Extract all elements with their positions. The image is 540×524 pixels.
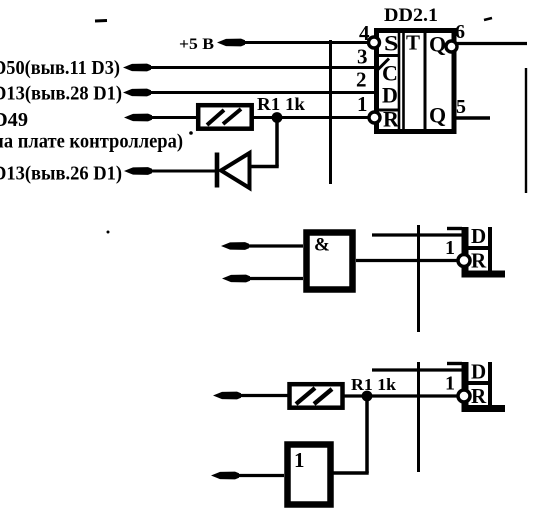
- wire diode anode horizontal: [250, 165, 279, 169]
- wire node down to diode: [275, 118, 279, 167]
- wire S input (pin 4) with arrow: [217, 39, 245, 47]
- wire diode cathode with arrow: [124, 167, 152, 175]
- wire NOT input with arrow: [211, 472, 239, 480]
- wire AND input 1 with arrow: [221, 242, 249, 250]
- partial flip-flop (bottom) bottom edge: [462, 405, 506, 412]
- flip-flop DD2.1 outer box: [377, 31, 455, 132]
- svg-text:DD2.1: DD2.1: [384, 5, 438, 26]
- wire resistor to node: [252, 116, 368, 119]
- wire AND output to R input: [356, 259, 457, 262]
- inversion circle R input (bottom): [458, 390, 470, 402]
- svg-text:R: R: [383, 107, 400, 132]
- partial flip-flop (bottom) left edge: [462, 362, 469, 409]
- artifact dash top left: [95, 19, 107, 23]
- wire left of resistor with arrow: [213, 392, 241, 400]
- wire D input (pin 2) with arrow: [123, 89, 151, 97]
- flip-flop DD2.1 column divider T-left: [402, 31, 405, 131]
- NOT gate box: [288, 445, 331, 505]
- wire AND input 2 with arrow: [222, 275, 250, 283]
- svg-text:R1 1k: R1 1k: [351, 375, 397, 394]
- wire resistor to R input: [343, 394, 457, 397]
- svg-text:Q: Q: [429, 103, 446, 128]
- svg-text:+5 В: +5 В: [179, 36, 214, 53]
- wire to NOT gate output: [333, 471, 369, 475]
- wire D input (middle section): [372, 233, 462, 236]
- svg-text:D: D: [382, 83, 398, 108]
- svg-text:5: 5: [456, 96, 466, 118]
- inversion circle Q output: [446, 41, 457, 52]
- partial flip-flop (middle) inner vertical: [488, 227, 492, 272]
- svg-text:D13(выв.26 D1): D13(выв.26 D1): [0, 163, 122, 185]
- partial flip-flop (middle) D/R divider: [462, 246, 492, 250]
- flip-flop DD2.1 column divider T-right: [424, 31, 427, 131]
- resistor R1 1k (bottom): [290, 384, 343, 408]
- svg-text:1: 1: [445, 237, 455, 259]
- svg-text:R1 1k: R1 1k: [257, 94, 305, 114]
- svg-text:R: R: [471, 384, 487, 408]
- wire Q output pin 6: [457, 42, 527, 45]
- svg-text:(на плате контроллера): (на плате контроллера): [0, 131, 183, 153]
- svg-text:D50(выв.11 D3): D50(выв.11 D3): [0, 57, 120, 79]
- partial flip-flop (bottom) top dash: [447, 362, 462, 365]
- svg-text:Q: Q: [429, 32, 446, 57]
- svg-text:3: 3: [357, 45, 368, 69]
- wire D input (bottom section): [372, 368, 462, 371]
- diode VD (points left): [215, 153, 220, 188]
- partial flip-flop (bottom) D/R divider: [462, 381, 492, 385]
- inversion circle S input: [369, 37, 380, 48]
- vertical bus line (top section): [329, 40, 332, 184]
- artifact dot: [189, 131, 193, 135]
- flip-flop DD2.1 S section divider: [378, 54, 400, 57]
- svg-text:T: T: [406, 31, 420, 55]
- wire C input (pin 3) with arrow: [123, 64, 151, 72]
- flip-flop DD2.1 column divider left: [398, 31, 401, 131]
- wire R input branch with arrow: [124, 114, 152, 122]
- artifact speck: [107, 231, 110, 234]
- svg-text:1: 1: [357, 92, 368, 116]
- junction node (bottom): [362, 391, 373, 402]
- right vertical line: [525, 68, 527, 193]
- inversion circle R input: [369, 112, 380, 123]
- svg-text:R: R: [471, 249, 487, 273]
- partial flip-flop (middle) top dash: [447, 227, 462, 230]
- svg-text:D49: D49: [0, 109, 28, 131]
- dynamic input marker at C: [378, 59, 389, 70]
- junction node: [272, 112, 283, 123]
- svg-text:&: &: [314, 235, 330, 256]
- vertical bus line (bottom section): [417, 362, 420, 472]
- partial flip-flop (middle) bottom edge: [462, 271, 506, 278]
- vertical bus line (middle section): [417, 225, 420, 332]
- svg-text:6: 6: [455, 21, 465, 43]
- AND gate DD3 box: [307, 233, 353, 290]
- flip-flop DD2.1 R section divider: [378, 109, 400, 112]
- artifact dash top right: [484, 18, 492, 20]
- resistor R1 1k (top): [198, 105, 252, 129]
- wire Q output pin 5: [454, 116, 490, 119]
- partial flip-flop (middle) left edge: [462, 227, 469, 274]
- svg-text:S: S: [384, 31, 399, 56]
- svg-text:1: 1: [445, 373, 455, 395]
- svg-text:D: D: [471, 224, 486, 248]
- svg-text:2: 2: [356, 68, 367, 92]
- svg-text:D13(выв.28 D1): D13(выв.28 D1): [0, 83, 122, 105]
- svg-text:D: D: [471, 360, 486, 384]
- partial flip-flop (bottom) inner vertical: [488, 362, 492, 407]
- wire node down (bottom): [365, 396, 369, 473]
- svg-text:1: 1: [294, 448, 305, 472]
- inversion circle R input (middle): [458, 255, 470, 267]
